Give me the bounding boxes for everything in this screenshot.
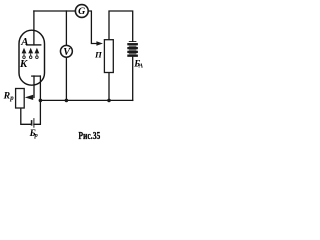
arrowhead tap of rheostat: [25, 95, 33, 100]
wire: voltmeter top branch: [65, 11, 67, 45]
heater battery Бр cell: [31, 120, 33, 126]
cathode bar: [31, 75, 40, 77]
svg-text:р: р: [34, 132, 39, 139]
svg-text:А: А: [138, 63, 144, 70]
wire: potentiometer bottom lead: [108, 73, 110, 101]
arrow stems: [24, 53, 37, 56]
wire: galvanometer right, down to potentiometer arrow: [88, 11, 97, 44]
wire: left heater lead from tube: [33, 76, 35, 97]
wire: anode battery bottom lead: [132, 57, 134, 101]
emission arrows: [22, 48, 40, 54]
wire: heater bottom wire from rheostat to battery: [21, 108, 32, 124]
arrowhead into П tap: [96, 41, 103, 45]
svg-text:K: K: [19, 58, 28, 70]
anode battery БА cells: [127, 42, 138, 56]
wire: voltmeter bottom lead: [65, 57, 67, 100]
svg-text:G: G: [78, 6, 85, 17]
wire: anode lead down into tube: [33, 11, 35, 45]
node: potentiometer junction: [107, 99, 111, 103]
svg-text:A: A: [20, 36, 28, 48]
potentiometer П body: [104, 40, 113, 73]
svg-text:Рис.35: Рис.35: [78, 130, 100, 142]
node: voltmeter junction: [65, 99, 69, 103]
galvanometer G body: [75, 5, 88, 18]
wire: bracket potentiometer top to anode battery top: [109, 11, 133, 41]
wire: bottom horizontal return wire: [40, 99, 132, 101]
rheostat Rр body: [16, 89, 25, 109]
voltmeter V body: [60, 45, 72, 57]
anode plate A: [26, 44, 41, 46]
vacuum tube (diode) envelope: [19, 30, 45, 85]
wire: right heater/cathode lead from tube down to heater battery: [34, 76, 41, 124]
node: cathode junction: [39, 99, 43, 103]
svg-text:р: р: [9, 95, 14, 102]
wire: top horizontal from tube anode to galvanometer: [34, 10, 76, 12]
heater circles: [23, 56, 38, 59]
svg-text:П: П: [94, 50, 103, 60]
